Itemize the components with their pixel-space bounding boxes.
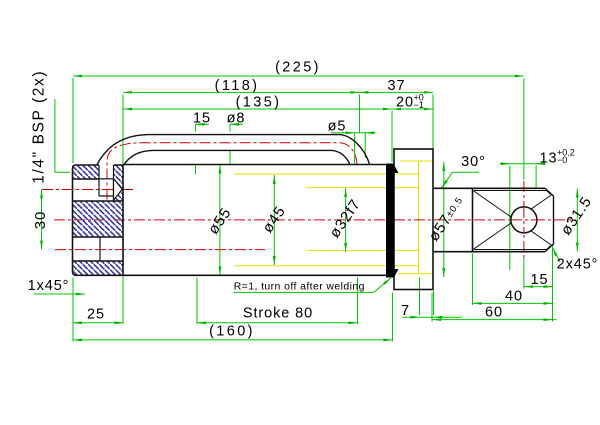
head block (394, 149, 433, 290)
cap section line y237 (73, 236, 124, 238)
svg-text:30: 30 (32, 211, 49, 230)
svg-text:(135): (135) (236, 95, 282, 111)
dim (225) left extension (72, 78, 74, 163)
svg-text:(225): (225) (275, 60, 321, 76)
port cavity right wall (113, 165, 115, 201)
rod top line (307, 187, 419, 189)
stroke right extension (357, 278, 359, 325)
svg-text:R=1, turn off after welding: R=1, turn off after welding (234, 281, 365, 293)
port cavity left wall (98, 165, 100, 196)
dim o55 line (219, 165, 221, 276)
arrow dim 15 (196, 123, 205, 126)
svg-text:15: 15 (193, 111, 211, 127)
cap hatched band bottom (74, 261, 124, 275)
dim 60 left extension (431, 293, 433, 322)
cap left extension bottom (72, 278, 74, 342)
cylinder body top line (123, 164, 387, 166)
head groove bottom line (398, 273, 433, 275)
svg-text:1x45°: 1x45° (28, 278, 70, 294)
arrow leader 2x45 (551, 247, 557, 256)
tolerance superscripts (414, 93, 575, 166)
bore top line (234, 173, 419, 175)
arrows dim (225) (73, 75, 82, 78)
extension at piston face top (391, 111, 393, 162)
dim 15 tick (196, 123, 210, 125)
dim 30 line (41, 189, 43, 249)
dim o5 line (331, 132, 376, 134)
arrows dim o45 (273, 175, 276, 184)
cap outline (73, 165, 124, 275)
arrows dim 30 (40, 189, 43, 198)
leader R1 underline (234, 278, 391, 293)
svg-text:20: 20 (396, 95, 414, 111)
dim o5 left extension (354, 133, 356, 164)
dim 13 left extension (509, 166, 511, 271)
extension at head right face top (432, 94, 434, 148)
svg-text:ø5: ø5 (328, 119, 347, 135)
arrows dim 60 (432, 318, 441, 321)
leader 2x45 (553, 248, 561, 263)
arrows dim 37 (360, 91, 369, 94)
cylinder body bottom line (123, 274, 394, 276)
green dimensions (34, 76, 577, 342)
svg-text:37: 37 (388, 78, 406, 94)
dim 13 line (500, 163, 545, 165)
leader 1x45 (34, 293, 85, 295)
dim 7 line (402, 316, 462, 318)
rod bottom line (307, 249, 419, 251)
tube outer line (97, 135, 370, 165)
extension at piston face bottom (392, 293, 394, 342)
port drill cone (114, 179, 123, 201)
dim o57 line (443, 162, 445, 277)
clevis chamfer inner lines (547, 191, 552, 250)
svg-text:15: 15 (531, 272, 549, 288)
svg-text:Stroke 80: Stroke 80 (243, 306, 313, 322)
svg-text:30°: 30° (461, 154, 486, 170)
leader BSP vertical (54, 99, 56, 172)
dim o8 tick (230, 123, 243, 125)
arrows dim stroke (197, 321, 206, 324)
dim (225) line (73, 75, 524, 77)
svg-text:60: 60 (485, 305, 503, 321)
svg-text:−0: −0 (557, 155, 567, 165)
arrows dim o31.5 (576, 189, 579, 198)
arrow leader 30deg (440, 180, 447, 189)
svg-text:40: 40 (505, 289, 523, 305)
part geometry black (73, 135, 554, 290)
dim 60 line (432, 319, 557, 321)
dim o45 line (273, 175, 275, 265)
dim 40 line (473, 302, 553, 304)
cap hatched band top (73, 165, 100, 179)
arrow leader 1x45 (76, 293, 85, 296)
svg-text:13: 13 (540, 151, 558, 167)
arrows dim o5 (346, 131, 355, 134)
head groove vertical (418, 161, 420, 274)
arrows dim (135) (123, 108, 132, 111)
dim 15 clevis line (524, 286, 553, 288)
svg-text:1/4" BSP (2x): 1/4" BSP (2x) (31, 70, 48, 184)
svg-text:7: 7 (401, 303, 410, 319)
arrows dim 15 clevis (524, 285, 533, 288)
dim o5 right extension (364, 133, 366, 158)
arrows dim 40 (473, 302, 482, 305)
rod top line (433, 187, 545, 189)
dim o32f7 line (345, 188, 347, 252)
green arrowheads (40, 75, 579, 342)
arrows dim 25 (73, 321, 82, 324)
bottom port divider (99, 237, 101, 261)
arrows dim o32f7 (344, 188, 347, 197)
stroke left extension (196, 278, 198, 325)
clevis diagonal 1 (473, 191, 552, 246)
dim 13 right extension (535, 166, 537, 189)
bottom port centerline (55, 249, 265, 251)
clevis chamfer top (545, 188, 554, 251)
top port centerline (42, 189, 135, 191)
red centerlines group (42, 143, 571, 258)
arrows dim 7 (411, 316, 420, 319)
clevis hole vertical centerline (523, 181, 525, 258)
svg-text:25: 25 (87, 307, 105, 323)
bore bottom line (234, 265, 419, 267)
dim (118)/37 line (123, 91, 433, 93)
clevis diagonal 2 (473, 195, 552, 250)
clevis hole crosshair refresh (511, 207, 537, 233)
leader BSP horizontal (55, 171, 70, 173)
piston weld bar (386, 164, 399, 278)
clevis inner top line (474, 190, 547, 192)
svg-text:ø8: ø8 (227, 111, 246, 127)
dimension texts (28, 60, 599, 340)
arrows dim 20 (392, 108, 401, 111)
arrows dim 13 (501, 162, 510, 165)
cap hatched block right of port (114, 165, 124, 201)
cap section line y201 (73, 200, 124, 202)
arrows dim o57 (442, 162, 445, 171)
svg-text:−1: −1 (414, 100, 424, 110)
rotated labels (31, 70, 596, 245)
clevis pin hole (511, 207, 537, 233)
svg-text:(118): (118) (215, 78, 260, 94)
cap section line y179 (73, 178, 100, 180)
dim 40 left extension (472, 254, 474, 306)
cap hatched band middle (73, 201, 124, 237)
dim 15 extension segments (195, 124, 197, 131)
svg-text:(160): (160) (209, 324, 255, 340)
arrows dim (118) (123, 91, 132, 94)
dim 25 line (73, 322, 124, 324)
clevis inner bottom line (474, 249, 547, 251)
dim (160) line (73, 339, 393, 341)
dim o31.5 line (576, 189, 578, 252)
port cavity bottom (99, 195, 114, 197)
cap section line y261 (73, 260, 124, 262)
svg-text:2x45°: 2x45° (557, 257, 599, 273)
clevis left face (472, 188, 474, 251)
tube inner line (124, 150, 350, 164)
arrows dim (160) (73, 339, 82, 342)
dim (225) right extension (523, 78, 525, 180)
extension at tube inlet (359, 94, 361, 132)
dim stroke 80 line (197, 322, 358, 324)
arrow dim o8 (230, 123, 239, 126)
dim o8 extension segments (229, 124, 231, 131)
yellow reference lines group (234, 161, 433, 274)
dim (135)/20 line (123, 108, 433, 110)
dim 7 left extension (419, 278, 421, 316)
tube centerline (107, 143, 357, 200)
arrows dim o55 (219, 165, 222, 174)
port counterbore line (99, 178, 114, 180)
main centerline (54, 219, 571, 221)
dim 7 right extension (433, 291, 435, 315)
rod bottom line (433, 251, 545, 253)
clevis right end extension (552, 244, 554, 322)
leader 30deg (442, 172, 480, 188)
extension at cap right face (122, 94, 124, 324)
head groove top line (400, 160, 432, 162)
clevis center extension below (523, 258, 525, 289)
arrow leader R1 (383, 277, 392, 285)
